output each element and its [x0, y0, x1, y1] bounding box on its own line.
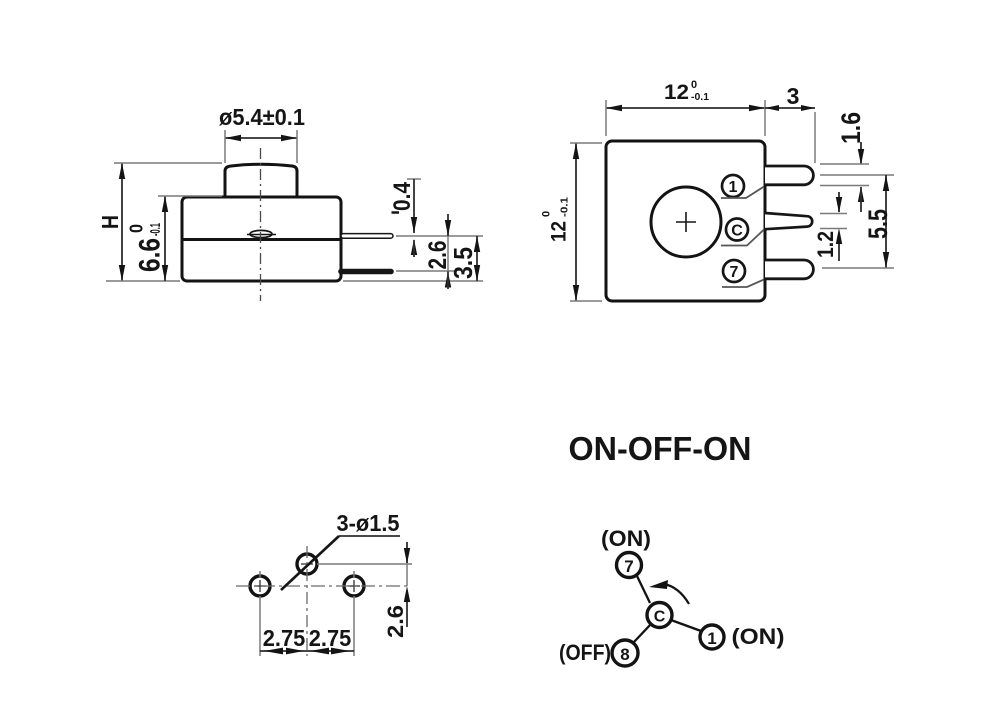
schematic terminal 1 [700, 625, 724, 649]
dimension 12 left text [541, 197, 571, 242]
pin1 center extension line [820, 174, 894, 176]
label circle C [726, 219, 748, 241]
front view center cross [676, 212, 696, 232]
svg-text:7: 7 [730, 264, 739, 281]
svg-text:(ON): (ON) [732, 624, 785, 649]
dimension 1.6 line [858, 142, 864, 212]
dimension 12 top extension lines [605, 100, 607, 136]
svg-text:1: 1 [729, 179, 738, 196]
svg-text:0: 0 [541, 211, 553, 217]
side view pin 1 (thin upper) [341, 234, 393, 239]
dimension 0.4 line [407, 179, 421, 257]
side pins extension line B [396, 270, 456, 272]
svg-text:ON-OFF-ON: ON-OFF-ON [569, 430, 752, 467]
dimension 2.75 line [260, 648, 354, 655]
dimension 3 extension line [814, 112, 816, 163]
svg-text:2.6: 2.6 [383, 605, 408, 638]
svg-text:-0.1: -0.1 [559, 197, 571, 217]
svg-text:6.6: 6.6 [134, 238, 167, 272]
side view slot oval [247, 230, 276, 237]
dimension H extension lines [114, 162, 222, 164]
svg-text:8: 8 [620, 645, 629, 664]
label circle 1 [722, 175, 744, 197]
dimension 12 left extension lines [570, 142, 602, 144]
label circle 7 [723, 260, 745, 282]
svg-text:H: H [97, 215, 123, 229]
pcb left hole vertical extension [259, 571, 261, 656]
svg-text:3.5: 3.5 [448, 247, 478, 279]
dimension 3.5 line [474, 236, 480, 281]
leader for label 7 [722, 280, 764, 288]
pcb hole right [344, 576, 364, 596]
svg-text:ø5.4±0.1: ø5.4±0.1 [219, 104, 305, 130]
svg-text:1: 1 [707, 629, 716, 648]
pcb hole middle [297, 554, 317, 574]
schematic terminal 8 [612, 640, 638, 666]
front view body [606, 141, 765, 301]
dimension 12 top text [664, 79, 709, 104]
svg-text:7: 7 [624, 557, 633, 576]
side view center line [260, 148, 262, 301]
dimension 1.2 line [836, 192, 842, 261]
svg-text:12: 12 [547, 221, 571, 242]
svg-text:0: 0 [127, 224, 147, 233]
leader 3-1.5 diagonal [281, 536, 339, 590]
svg-text:2.75: 2.75 [309, 625, 352, 651]
schematic terminal 7 [617, 553, 642, 578]
svg-text:3: 3 [787, 83, 800, 109]
svg-text:(OFF): (OFF) [559, 640, 611, 665]
side view body mid line [182, 238, 341, 241]
dimension 6.6 extension line [158, 195, 222, 197]
pcb hole left [250, 576, 270, 596]
dimension 12 top line [606, 105, 765, 111]
side view pin 2 (thick lower) [341, 269, 391, 275]
dimension H line [119, 163, 125, 281]
dimension 5.4 extension lines [224, 130, 226, 163]
pinC extension lines [820, 213, 847, 215]
svg-text:-0.1: -0.1 [691, 92, 709, 103]
side pins extension line A [396, 235, 483, 237]
front view pin C [765, 213, 812, 229]
schematic rotation arrow [649, 580, 689, 604]
dimension 5.5 line [883, 175, 889, 268]
svg-text:C: C [731, 223, 743, 240]
front view circle [651, 187, 721, 257]
front view pin 1 [765, 166, 813, 185]
svg-text:-0.1: -0.1 [147, 223, 164, 236]
schematic link C to 1 [671, 620, 701, 631]
dimension 6.6 line [162, 196, 168, 281]
dimension 5.4 line [225, 135, 297, 141]
svg-text:3-ø1.5: 3-ø1.5 [337, 510, 400, 536]
leader for label C [721, 230, 764, 246]
dimension 6.6 text [127, 223, 167, 272]
dimension 3 line [765, 105, 815, 111]
svg-text:12: 12 [664, 81, 689, 104]
dimension 2.6 line [445, 214, 451, 289]
svg-text:2.75: 2.75 [263, 625, 306, 651]
schematic terminal C [647, 603, 672, 628]
side view body [182, 197, 341, 281]
front view pin 7 [765, 260, 813, 279]
side body bottom extension line [343, 280, 483, 282]
schematic link C to 8 [634, 624, 651, 642]
leader 3-1.5 underline [339, 535, 400, 537]
pin7 extension line [822, 267, 894, 269]
svg-text:1.6: 1.6 [836, 112, 866, 144]
pcb horizontal center line [236, 585, 408, 587]
pcb middle hole vertical center line [306, 546, 308, 656]
svg-text:0.4: 0.4 [389, 181, 416, 211]
leader for label 1 [721, 187, 764, 199]
svg-text:(ON): (ON) [601, 526, 651, 551]
pin1 extension lines [820, 163, 869, 165]
schematic link 7 to C [637, 576, 650, 603]
dimension 12 left line [573, 143, 579, 301]
dimension 2.6 pcb line [404, 542, 410, 627]
svg-text:C: C [654, 609, 666, 626]
pcb right hole vertical extension [353, 571, 355, 656]
svg-text:1.2: 1.2 [813, 231, 838, 258]
pcb middle hole horizontal extension [317, 563, 412, 565]
svg-text:0: 0 [691, 79, 697, 91]
svg-text:5.5: 5.5 [863, 209, 893, 239]
side view button [225, 164, 297, 197]
